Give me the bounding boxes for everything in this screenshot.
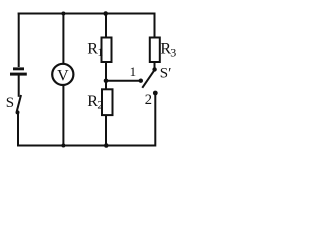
contact 1 dot [139,79,143,83]
junction dot R1-R2 tap node [104,79,109,84]
resistor R2 body [102,89,113,115]
battery cell (short thick plate) [13,67,24,70]
resistor R1 body [102,38,112,63]
contact 2 dot [153,91,158,96]
svg-text:2: 2 [145,92,152,108]
resistor R3 body [150,38,160,63]
junction dot bottom middle node [104,143,109,148]
wire tap from R1-R2 node to contact 1 [106,80,141,82]
switch S pivot dot [16,110,20,114]
switch S blade [17,95,21,111]
switch S' pivot dot [152,67,156,71]
wire right branch upper (top to R3) [154,13,156,39]
junction dot bottom voltmeter node [61,144,65,148]
wire contact 2 to bottom-right corner [154,94,156,147]
svg-text:S: S [6,95,14,111]
wire middle branch lower (R2 to bottom) [105,115,107,146]
switch S' blade [142,70,154,87]
wire voltmeter branch upper [62,14,64,65]
svg-text:2: 2 [97,98,103,112]
wire voltmeter branch lower [62,85,64,146]
wire left branch upper (battery top lead) [18,13,20,68]
wire middle branch mid (R1 to R2) [105,62,107,90]
wire left branch mid (battery to switch S) [18,75,20,97]
voltmeter U1 circle [52,64,73,85]
wire left branch lower (switch S to bottom) [17,113,19,147]
junction dot top voltmeter node [61,12,65,16]
wire top horizontal [18,13,155,15]
svg-text:1: 1 [130,64,137,79]
svg-text:S′: S′ [160,66,172,82]
svg-text:3: 3 [170,45,176,59]
wire middle branch upper (top to R1) [105,14,107,39]
svg-text:1: 1 [97,45,103,59]
wire bottom horizontal [18,145,156,147]
junction dot top middle node [103,11,108,16]
battery cell (long thick plate) [10,73,27,76]
svg-text:V: V [57,67,69,84]
wire right branch R3 to S' pivot [154,62,156,69]
